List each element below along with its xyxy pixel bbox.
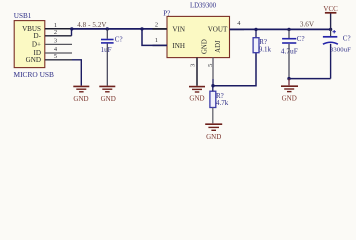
svg-text:D-: D- (34, 32, 42, 40)
svg-text:ADJ: ADJ (215, 40, 222, 53)
svg-text:VOUT: VOUT (208, 25, 228, 33)
svg-text:GND: GND (202, 39, 209, 54)
wire: C1 top lead (106, 29, 108, 39)
ground symbol under USB GND (73, 86, 89, 91)
label GND (under R2) (206, 133, 221, 141)
wire: ADJ feedback node to R1 bottom (213, 53, 256, 86)
svg-text:3300uF: 3300uF (330, 47, 351, 54)
pin 1 line (VBUS) (45, 28, 72, 30)
svg-text:3.6V: 3.6V (300, 20, 315, 28)
label R? (4.7k) (216, 92, 224, 100)
svg-text:1: 1 (155, 37, 158, 44)
svg-text:5: 5 (54, 53, 57, 60)
pin number 1 (54, 22, 57, 29)
svg-text:9.1k: 9.1k (259, 45, 272, 53)
svg-text:2: 2 (155, 21, 158, 28)
svg-text:2: 2 (54, 29, 57, 36)
pin name VIN (172, 25, 185, 33)
pin 2 lead (VIN) (153, 28, 168, 30)
svg-text:USB1: USB1 (14, 12, 32, 20)
svg-text:GND: GND (101, 95, 116, 103)
capacitor C? 1uF plates (101, 40, 114, 43)
label GND (under C1) (101, 95, 116, 103)
pin name ID (34, 49, 42, 57)
value 4.7k (216, 99, 229, 107)
svg-text:C?: C? (343, 34, 351, 42)
pin number 4 (VOUT) (237, 20, 241, 27)
svg-text:GND: GND (206, 133, 221, 141)
pin name D- (34, 32, 42, 40)
junction at VBUS/D- tie (70, 27, 73, 30)
label VCC (323, 5, 338, 13)
pin number 5 (54, 53, 57, 60)
pin 4 lead (VOUT) (230, 28, 245, 30)
ground symbol under C2/C3 (281, 86, 298, 91)
pin 1 lead (INH) (153, 44, 168, 46)
wire: D- stub up to VBUS net (71, 29, 73, 36)
value 4.7uF (281, 46, 298, 55)
pin name D+ (32, 41, 41, 49)
pin number 3 (54, 38, 57, 45)
junction at INH branch (140, 27, 143, 30)
svg-text:4.7k: 4.7k (216, 99, 229, 107)
value 3300uF (330, 47, 351, 54)
comment MICRO USB (14, 70, 55, 79)
pin name GND (rotated) (202, 39, 209, 54)
svg-text:VIN: VIN (172, 25, 185, 33)
svg-text:3: 3 (54, 38, 57, 45)
connector USB1 body (14, 21, 45, 68)
wire: VCC stem (330, 14, 332, 30)
label C? (4.7uF cap) (297, 35, 305, 43)
svg-text:4.8 - 5.2V: 4.8 - 5.2V (77, 21, 106, 29)
pin name ADJ (rotated) (215, 40, 222, 53)
wire: INH enable branch (142, 29, 167, 46)
pin 5 lead (ADJ) down (212, 58, 214, 86)
pin 2 line (D-) (45, 35, 72, 37)
pin number 3 (GND, rotated) (190, 64, 197, 67)
svg-text:1uF: 1uF (101, 46, 112, 54)
junction at R1 top (254, 28, 257, 31)
svg-text:GND: GND (282, 94, 297, 102)
wire: C3 top lead (330, 29, 332, 36)
svg-text:C?: C? (115, 36, 123, 44)
wire: C1 bottom lead to ground (106, 44, 108, 86)
wire: R2 bottom lead to ground (212, 108, 214, 124)
pin number 2 (VIN) (155, 21, 158, 28)
pin name GND (26, 56, 41, 64)
svg-text:VCC: VCC (323, 5, 338, 13)
svg-text:3: 3 (190, 64, 197, 67)
designator P? (163, 9, 170, 17)
value 9.1k (259, 45, 272, 53)
pin 4 line (ID) unconnected stub (45, 52, 72, 54)
pin number 2 (54, 29, 57, 36)
capacitor C? 4.7uF plates (282, 39, 296, 43)
polarity + mark (333, 30, 336, 33)
svg-text:GND: GND (73, 95, 88, 103)
power symbol VCC bar (325, 12, 337, 14)
label GND (IC ground) (189, 95, 204, 103)
svg-text:LD39300: LD39300 (190, 2, 217, 9)
wire: C2 bottom lead (288, 44, 290, 79)
pin number 1 (INH) (155, 37, 158, 44)
pin name VOUT (208, 25, 228, 33)
svg-text:GND: GND (26, 56, 41, 64)
label GND (output ground) (282, 94, 297, 102)
ground symbol under IC GND (189, 87, 205, 92)
junction at ADJ node (211, 84, 214, 87)
wire: R2 top lead (212, 86, 214, 92)
wire: VOUT net (230, 28, 332, 30)
wire: VBUS net from USB to regulator VIN (72, 28, 168, 30)
pin number 5 (ADJ, rotated) (207, 64, 214, 67)
label C? (1uF cap) (115, 36, 123, 44)
pin 5 line (GND) (45, 59, 72, 61)
svg-text:MICRO USB: MICRO USB (14, 70, 55, 79)
value 1uF (101, 46, 112, 54)
resistor R? 9.1k body (253, 38, 259, 53)
resistor R? 4.7k body (210, 91, 216, 107)
label R? (9.1k) (259, 38, 267, 46)
wire: R1 top lead (255, 29, 257, 37)
svg-text:D+: D+ (32, 41, 41, 49)
pin name VBUS (22, 25, 41, 33)
wire: C2 top lead (288, 29, 290, 38)
ground symbol under C1 (99, 86, 115, 91)
wire: C3 bottom lead (330, 44, 332, 79)
sheet background (0, 0, 356, 141)
wire: stub to ground symbol (288, 79, 290, 86)
pin 3 lead (IC GND) to ground (196, 58, 198, 86)
part name LD39300 (190, 2, 217, 9)
pin number 4 (54, 46, 58, 53)
junction at ground tie (287, 77, 290, 80)
junction at VCC tap (329, 28, 332, 31)
svg-text:1: 1 (54, 22, 57, 29)
wire: C3 bottom return to ground tie (289, 78, 331, 80)
junction at C1 tap (106, 27, 109, 30)
regulator U? LD39300 body (167, 16, 230, 57)
label C? (3300uF cap) (343, 34, 351, 42)
label GND (USB ground) (73, 95, 88, 103)
svg-text:C?: C? (297, 35, 305, 43)
svg-text:GND: GND (189, 95, 204, 103)
pin 3 line (D+) unconnected stub (45, 43, 72, 45)
pin name INH (172, 42, 185, 50)
svg-text:P?: P? (163, 9, 170, 17)
svg-text:INH: INH (172, 42, 185, 50)
net label 3.6V (300, 20, 315, 28)
ground symbol under R2 (205, 124, 222, 130)
net label 4.8 - 5.2V (77, 21, 106, 29)
wire: USB GND pin to ground (72, 60, 81, 86)
junction at C2 tap (287, 28, 290, 31)
capacitor C? 3300uF plates (polarized) (323, 37, 338, 44)
designator USB1 (14, 12, 32, 20)
